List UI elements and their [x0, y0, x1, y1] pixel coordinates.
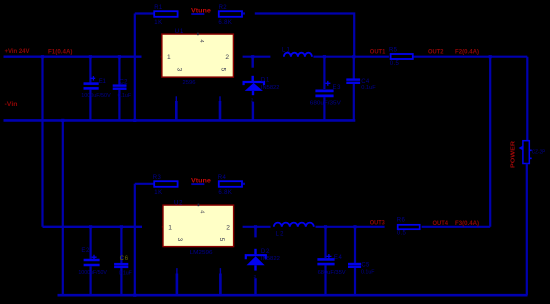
svg-text:680uF/35V: 680uF/35V: [318, 270, 346, 276]
wire ground rail (bottom): [58, 294, 528, 297]
node junction riser/bottom ground rail: [133, 294, 136, 297]
wire +Vin rail (top): [4, 56, 142, 58]
svg-text:E3: E3: [333, 85, 342, 91]
svg-text:1K: 1K: [154, 20, 162, 26]
wire +V rail (bottom): [43, 226, 143, 228]
svg-text:2: 2: [225, 54, 229, 61]
svg-text:1000uF/50V: 1000uF/50V: [81, 93, 111, 99]
svg-text:0.5: 0.5: [397, 231, 407, 237]
wire output line after R6: [422, 226, 491, 228]
wire right edge down to connector: [526, 57, 528, 141]
wire U2 pin3 stub: [176, 268, 178, 274]
capacitor E1: [81, 55, 111, 120]
wire U1 pin3 stub: [175, 96, 177, 102]
capacitor C6: [114, 225, 132, 295]
svg-text:L2: L2: [276, 232, 285, 238]
resistor R2: [218, 5, 242, 26]
capacitor E3: [310, 55, 341, 120]
svg-text:0.1uF: 0.1uF: [361, 270, 375, 276]
svg-text:6.8K: 6.8K: [218, 190, 232, 196]
op-amp U2 module LM2596: [162, 200, 234, 256]
svg-text:0.5: 0.5: [390, 61, 400, 67]
svg-text:1000uF/50V: 1000uF/50V: [78, 270, 107, 276]
svg-text:C2: C2: [120, 79, 129, 85]
svg-text:CZ-2P: CZ-2P: [532, 150, 546, 156]
wire ground rail (top): [4, 119, 356, 122]
svg-text:0.1uF: 0.1uF: [361, 85, 376, 91]
wire U2 output to switch node: [243, 226, 271, 228]
svg-text:R2: R2: [219, 5, 228, 11]
svg-text:OUT3: OUT3: [370, 220, 385, 227]
wire U1 output to switch node: [243, 56, 271, 58]
resistor R5 (shunt top): [389, 48, 413, 67]
svg-text:U2: U2: [174, 200, 183, 206]
svg-text:+Vin 24V: +Vin 24V: [5, 48, 31, 55]
svg-text:5: 5: [218, 238, 225, 242]
wire Vtune stub (bottom): [191, 183, 204, 185]
diode D1 IN5822: [244, 55, 280, 120]
resistor R4: [218, 175, 242, 196]
resistor R3: [153, 175, 178, 196]
node junction riser/top line: [489, 55, 492, 58]
svg-text:1: 1: [168, 225, 172, 232]
svg-text:1: 1: [167, 54, 171, 61]
svg-text:R4: R4: [218, 175, 227, 181]
svg-text:2: 2: [226, 225, 230, 232]
wire U2 pin5 stub: [219, 268, 221, 274]
svg-text:-Vin: -Vin: [5, 101, 18, 108]
node junction riser/ground rail: [133, 119, 136, 122]
wire R4 right stub: [243, 183, 245, 185]
wire output line after L1: [314, 56, 389, 58]
svg-text:3: 3: [176, 68, 183, 72]
svg-text:3: 3: [176, 238, 183, 242]
svg-text:4: 4: [198, 40, 204, 43]
wire corner to R1: [135, 12, 154, 14]
svg-text:OUT1: OUT1: [370, 48, 386, 55]
svg-text:IN5822: IN5822: [261, 85, 280, 91]
wire U1 pin5 stub: [219, 96, 221, 102]
wire output riser joining OUT4: [489, 57, 491, 227]
svg-text:D1: D1: [261, 78, 270, 84]
diode D2 IN5822: [246, 225, 280, 295]
svg-text:0.1uF: 0.1uF: [119, 270, 132, 276]
svg-text:680uF/35V: 680uF/35V: [310, 101, 341, 107]
op-amp U1 module 2596: [161, 29, 234, 86]
wire R2 right stub: [243, 12, 245, 14]
svg-text:OUT4: OUT4: [433, 220, 449, 227]
svg-text:OUT2: OUT2: [428, 48, 444, 55]
capacitor C5: [348, 225, 375, 295]
wire feedback run (top): [255, 14, 354, 57]
svg-text:4: 4: [199, 210, 205, 213]
connector J1: [510, 140, 545, 168]
svg-text:D2: D2: [261, 249, 270, 255]
wire vertical ground link to bottom: [62, 120, 64, 295]
svg-text:0.1uF: 0.1uF: [118, 93, 132, 99]
svg-text:IN5822: IN5822: [261, 256, 280, 262]
svg-text:5: 5: [219, 68, 226, 72]
wire connector to bottom rail: [526, 164, 528, 296]
node junction at +Vin rail x42: [41, 55, 44, 58]
wire output line after L2: [316, 226, 385, 228]
svg-text:R6: R6: [397, 218, 406, 224]
svg-text:F3(0.4A): F3(0.4A): [455, 220, 479, 227]
wire corner to R3: [135, 183, 154, 185]
svg-text:E2: E2: [81, 248, 90, 254]
wire divider-to-ground riser (top): [134, 14, 136, 121]
svg-text:C6: C6: [120, 256, 129, 262]
inductor L1: [282, 48, 312, 57]
svg-text:R5: R5: [389, 48, 398, 54]
svg-text:E1: E1: [99, 79, 107, 85]
svg-text:POWER: POWER: [510, 140, 516, 168]
svg-text:R3: R3: [153, 175, 162, 181]
svg-text:C4: C4: [361, 79, 370, 85]
wire output line after R5: [413, 56, 527, 58]
svg-text:1K: 1K: [154, 190, 162, 196]
wire divider-to-ground riser (bottom): [134, 184, 136, 295]
resistor R1: [154, 5, 177, 26]
svg-text:E4: E4: [334, 255, 343, 261]
svg-text:6.8K: 6.8K: [218, 20, 232, 26]
svg-text:F2(0.4A): F2(0.4A): [455, 49, 479, 56]
svg-text:C5: C5: [361, 263, 370, 269]
capacitor C2: [113, 55, 132, 120]
capacitor E2: [78, 225, 107, 295]
wire Vtune stub (top): [191, 13, 204, 15]
svg-text:2596: 2596: [183, 80, 196, 86]
svg-text:F1(0.4A): F1(0.4A): [48, 49, 73, 56]
inductor L2: [274, 223, 314, 238]
node junction at ground rail x63: [61, 119, 64, 122]
capacitor C4: [346, 55, 376, 120]
capacitor E4: [317, 225, 345, 295]
svg-text:R1: R1: [154, 5, 163, 11]
wire vertical feed to bottom circuit: [41, 57, 43, 227]
svg-text:LM2596: LM2596: [190, 250, 213, 256]
svg-text:U1: U1: [175, 29, 184, 35]
resistor R6 (shunt bottom): [397, 218, 420, 237]
